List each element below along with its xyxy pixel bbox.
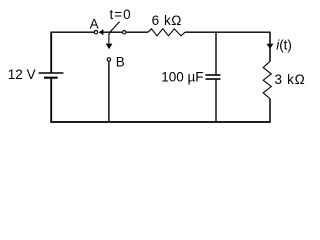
battery V1 negative short plate	[44, 77, 58, 79]
node junction capacitor branch	[215, 32, 217, 75]
left rail top segment	[50, 32, 52, 74]
node A terminal circle	[94, 31, 97, 34]
svg-text:t=0: t=0	[110, 7, 132, 22]
svg-text:A: A	[90, 17, 99, 32]
svg-text:6 kΩ: 6 kΩ	[152, 13, 182, 28]
left rail bottom segment	[50, 79, 52, 122]
wire node B down to bottom rail	[108, 61, 110, 122]
wire from pivot to resistor R1	[126, 31, 148, 33]
capacitor C1 bottom plate	[206, 78, 221, 80]
switch blade wire from arrowhead to pivot	[103, 31, 122, 33]
right rail bottom segment	[269, 99, 271, 122]
svg-text:i(t): i(t)	[276, 37, 292, 52]
wire top-left from left rail to switch terminal A	[51, 31, 94, 33]
switch pivot terminal circle	[123, 31, 126, 34]
right rail top segment	[269, 32, 271, 62]
svg-text:3 kΩ: 3 kΩ	[275, 72, 306, 87]
svg-text:B: B	[116, 54, 125, 69]
capacitor C1 top plate	[206, 74, 221, 76]
switch blade arrowhead pointing at A	[99, 29, 104, 35]
battery V1 positive long plate	[39, 72, 64, 74]
svg-text:100 µF: 100 µF	[161, 70, 203, 85]
wire capacitor to bottom rail	[215, 79, 217, 122]
switch throw arrowhead pointing down at B	[106, 44, 113, 50]
resistor 3 kOhm zigzag	[263, 61, 271, 98]
node B terminal circle	[107, 58, 110, 61]
switch throw curve from t=0 toward B	[109, 22, 120, 44]
current arrow i(t)	[267, 44, 274, 49]
svg-text:12 V: 12 V	[8, 67, 36, 82]
bottom rail	[50, 121, 270, 123]
resistor 6 kOhm zigzag	[148, 29, 185, 36]
wire resistor to top-right corner	[185, 31, 270, 33]
